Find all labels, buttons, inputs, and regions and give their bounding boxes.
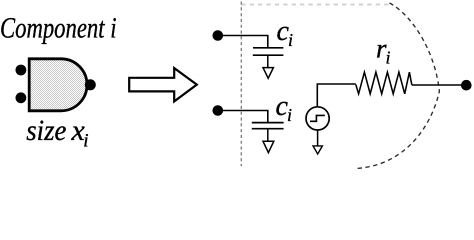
- svg-text:size: size: [26, 114, 66, 147]
- capacitor C_i (top): plates: [253, 47, 283, 49]
- node: output terminal dot: [461, 80, 472, 91]
- svg-text:i: i: [288, 30, 293, 50]
- gate body (component i, AND-gate shape): [29, 59, 87, 111]
- node: input terminal 1 (top dot): [213, 30, 224, 41]
- wire: cap2 to ground: [267, 129, 269, 142]
- wire: source top to resistor: [317, 84, 356, 107]
- node: input terminal 2 (bottom dot): [213, 105, 224, 116]
- ground (source): [313, 146, 322, 154]
- svg-text:i: i: [386, 48, 391, 68]
- resistor r_i zigzag: [356, 72, 412, 94]
- svg-text:i: i: [287, 105, 292, 125]
- wire: source bottom to ground: [317, 130, 319, 146]
- dashed model boundary: right arc: [356, 3, 439, 169]
- wire: cap1 to ground: [267, 55, 269, 67]
- step voltage source: [306, 107, 329, 130]
- wire: terminal1 to cap1: [218, 36, 268, 48]
- capacitor C_i (bottom): plates: [252, 122, 284, 124]
- dashed model boundary: top edge: [241, 4, 390, 6]
- wire: terminal2 to cap2: [218, 111, 268, 123]
- input pin dot bottom: [16, 92, 27, 103]
- ground (bottom cap): [263, 141, 274, 152]
- output pin dot: [85, 79, 96, 90]
- step waveform inside source: [310, 115, 325, 121]
- dashed model boundary: left edge: [240, 2, 242, 167]
- wire: resistor to output terminal: [412, 84, 466, 86]
- input pin dot top: [16, 65, 27, 76]
- svg-text:Component i: Component i: [0, 12, 117, 45]
- ground (top cap): [263, 68, 273, 79]
- big hollow arrow: [129, 68, 197, 101]
- svg-text:i: i: [83, 131, 88, 152]
